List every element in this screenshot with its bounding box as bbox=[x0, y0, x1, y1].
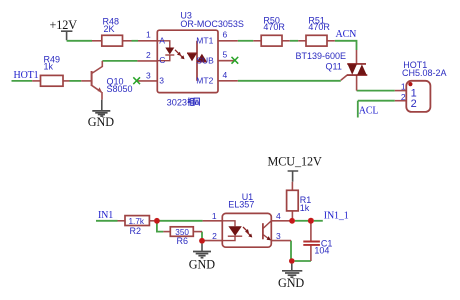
svg-text:1k: 1k bbox=[300, 203, 310, 213]
svg-text:ACL: ACL bbox=[359, 106, 379, 117]
svg-text:HOT1: HOT1 bbox=[14, 70, 39, 81]
svg-text:EL357: EL357 bbox=[228, 200, 254, 210]
svg-text:R2: R2 bbox=[130, 226, 142, 236]
svg-text:3: 3 bbox=[159, 75, 164, 85]
svg-text:470R: 470R bbox=[308, 22, 330, 32]
svg-text:Q11: Q11 bbox=[326, 61, 342, 71]
svg-text:470R: 470R bbox=[263, 22, 285, 32]
svg-text:6: 6 bbox=[223, 30, 228, 40]
svg-text:3: 3 bbox=[146, 70, 151, 80]
svg-text:+12V: +12V bbox=[50, 18, 78, 32]
svg-text:SUB: SUB bbox=[196, 55, 214, 65]
svg-text:MT2: MT2 bbox=[196, 75, 213, 85]
svg-text:IN1: IN1 bbox=[98, 210, 113, 221]
svg-text:1k: 1k bbox=[44, 61, 54, 71]
svg-text:BT139-600E: BT139-600E bbox=[296, 51, 347, 61]
svg-text:GND: GND bbox=[278, 276, 304, 290]
svg-text:GND: GND bbox=[88, 115, 114, 129]
svg-text:104: 104 bbox=[314, 246, 329, 256]
svg-text:1: 1 bbox=[212, 211, 217, 221]
svg-text:4: 4 bbox=[223, 70, 228, 80]
svg-text:MCU_12V: MCU_12V bbox=[268, 154, 322, 168]
svg-text:IN1_1: IN1_1 bbox=[324, 211, 349, 222]
svg-text:ACN: ACN bbox=[336, 29, 357, 40]
svg-text:2: 2 bbox=[212, 231, 217, 241]
svg-text:1: 1 bbox=[146, 30, 151, 40]
svg-text:R6: R6 bbox=[177, 236, 189, 246]
svg-text:4: 4 bbox=[276, 211, 281, 221]
svg-text:2: 2 bbox=[146, 50, 151, 60]
svg-text:A: A bbox=[159, 35, 165, 45]
svg-text:OR-MOC3053S: OR-MOC3053S bbox=[180, 19, 244, 29]
svg-text:1: 1 bbox=[401, 82, 406, 92]
svg-text:S8050: S8050 bbox=[107, 84, 133, 94]
svg-text:2K: 2K bbox=[104, 24, 115, 34]
svg-text:3: 3 bbox=[276, 231, 281, 241]
svg-text:5: 5 bbox=[223, 50, 228, 60]
svg-text:C: C bbox=[159, 55, 165, 65]
svg-text:2: 2 bbox=[401, 92, 406, 102]
svg-text:2: 2 bbox=[411, 98, 417, 110]
svg-text:CH5.08-2A: CH5.08-2A bbox=[402, 68, 447, 78]
svg-text:MT1: MT1 bbox=[196, 35, 213, 45]
svg-text:3023: 3023 bbox=[167, 97, 187, 107]
svg-text:GND: GND bbox=[189, 258, 215, 272]
